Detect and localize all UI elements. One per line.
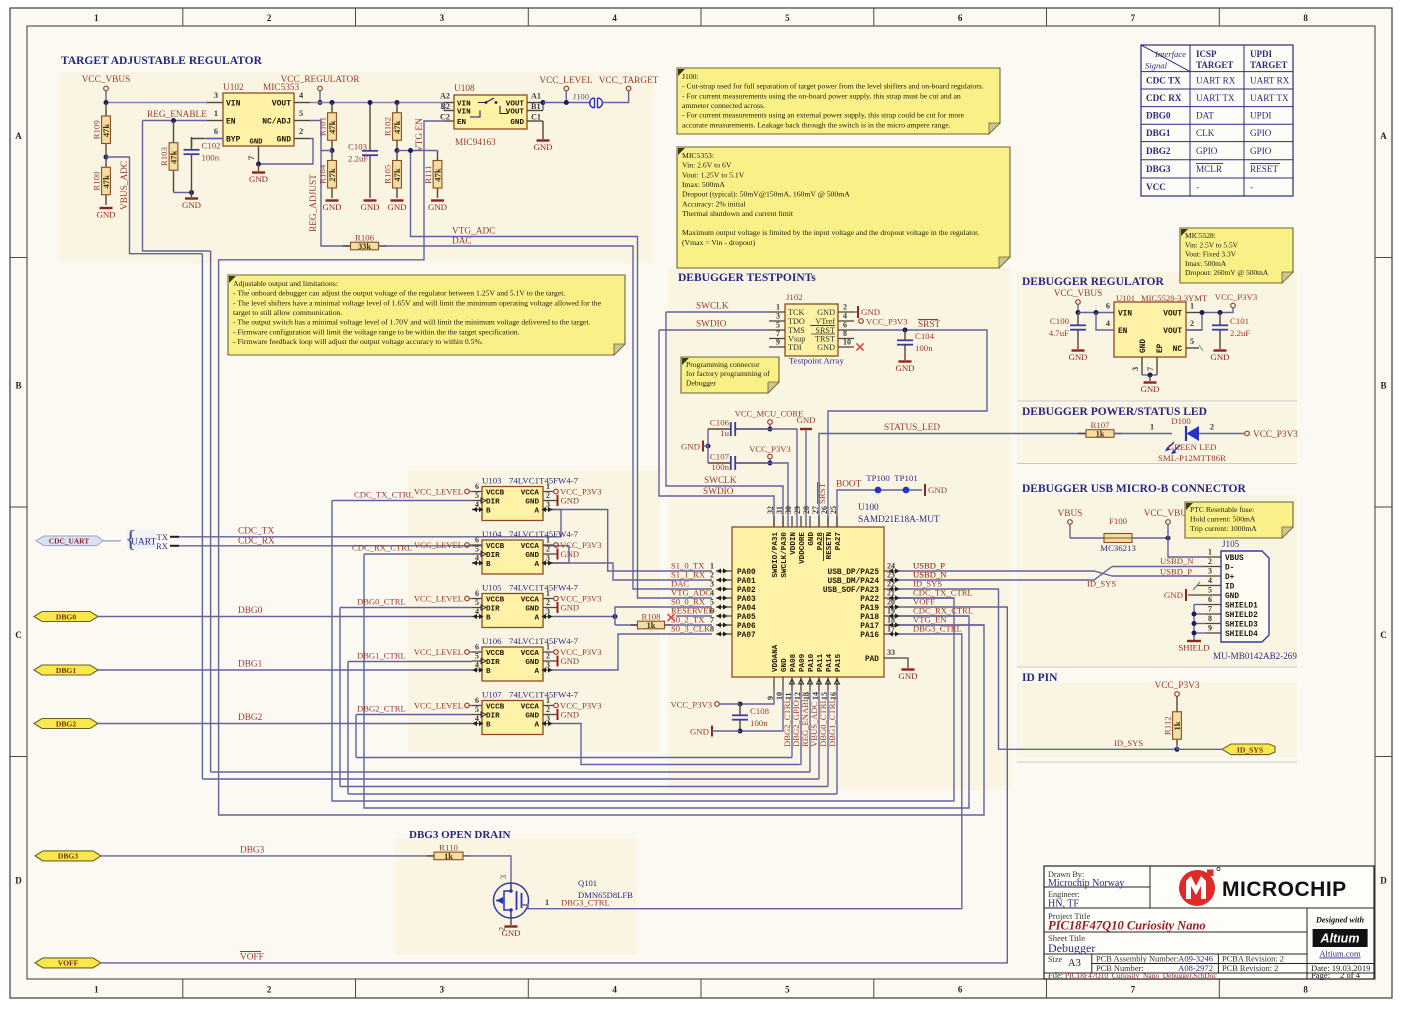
svg-text:SAMD21E18A-MUT: SAMD21E18A-MUT xyxy=(858,515,940,525)
level shifter U103 74LVC1T45 xyxy=(482,487,543,521)
svg-text:1k: 1k xyxy=(1096,429,1105,438)
svg-text:1: 1 xyxy=(776,303,780,312)
svg-text:VCC_LEVEL: VCC_LEVEL xyxy=(414,540,463,550)
component U101 MIC5528-3.3YMT xyxy=(1114,302,1186,357)
svg-text:UART: UART xyxy=(131,538,156,548)
panel debugger testpoints and mcu xyxy=(668,268,1011,790)
svg-text:S0_3_CLK: S0_3_CLK xyxy=(671,624,711,634)
svg-text:GND: GND xyxy=(781,658,789,672)
note PTC resettable fuse xyxy=(1185,502,1293,538)
svg-text:2: 2 xyxy=(546,545,550,554)
svg-text:B: B xyxy=(486,668,491,676)
svg-text:A: A xyxy=(1380,131,1387,141)
wire Q101 gate to DBG3_CTRL xyxy=(522,905,542,909)
svg-text:Signal: Signal xyxy=(1145,61,1168,71)
svg-text:Page:: Page: xyxy=(1311,970,1330,980)
svg-text:2: 2 xyxy=(710,571,714,580)
svg-text:C106: C106 xyxy=(710,418,730,428)
svg-text:BYP: BYP xyxy=(226,136,241,145)
svg-text:6: 6 xyxy=(958,13,963,23)
no-connect x J102 pin10 xyxy=(856,343,863,350)
svg-text:UART RX: UART RX xyxy=(1250,76,1290,86)
svg-text:9: 9 xyxy=(776,338,780,347)
svg-text:PAD: PAD xyxy=(865,656,879,664)
ground below R105 xyxy=(391,199,404,201)
svg-text:PA27: PA27 xyxy=(835,532,843,551)
svg-text:B: B xyxy=(486,614,491,622)
component U108 MIC94163 load switch xyxy=(454,95,527,129)
svg-text:5: 5 xyxy=(475,705,479,714)
svg-text:J102: J102 xyxy=(786,292,803,302)
svg-text:D-: D- xyxy=(1225,565,1234,573)
wire pin13 drop xyxy=(809,690,811,772)
svg-text:1: 1 xyxy=(1190,302,1194,311)
svg-text:PA04: PA04 xyxy=(737,605,756,613)
level shifter U105 74LVC1T45 xyxy=(482,594,543,628)
svg-text:CDC RX: CDC RX xyxy=(1146,93,1182,103)
svg-text:SML-P12MTT86R: SML-P12MTT86R xyxy=(1158,453,1226,463)
note MIC5353 specs xyxy=(677,147,1010,268)
svg-text:1u: 1u xyxy=(720,428,729,438)
svg-text:6: 6 xyxy=(475,589,479,598)
svg-text:VCC_TARGET: VCC_TARGET xyxy=(599,76,659,86)
svg-text:DBG0: DBG0 xyxy=(1146,111,1171,121)
svg-text:2 of 4: 2 of 4 xyxy=(1340,970,1361,980)
svg-text:26: 26 xyxy=(820,506,829,514)
svg-text:NC: NC xyxy=(1173,346,1183,354)
svg-text:PIC18F47Q10 Curiosity Nano: PIC18F47Q10 Curiosity Nano xyxy=(1048,919,1206,933)
wire LED to VCC_P3V3 xyxy=(1199,433,1244,435)
svg-text:8: 8 xyxy=(1303,13,1308,23)
svg-text:ID_SYS: ID_SYS xyxy=(1087,579,1116,589)
svg-text:D: D xyxy=(1380,875,1387,885)
svg-text:BOOT: BOOT xyxy=(836,480,862,490)
node junction R102 rail xyxy=(395,100,400,105)
svg-text:R103: R103 xyxy=(159,146,169,166)
wire U101 VOUT join to VCC_P3V3 xyxy=(1186,313,1202,331)
svg-text:DEBUGGER TESTPOINTs: DEBUGGER TESTPOINTs xyxy=(678,272,816,284)
svg-text:D100: D100 xyxy=(1171,416,1191,426)
svg-text:VOUT: VOUT xyxy=(1163,328,1182,336)
svg-text:PA06: PA06 xyxy=(737,623,756,631)
svg-text:J100: J100 xyxy=(573,92,589,102)
svg-text:1k: 1k xyxy=(1172,721,1182,730)
svg-text:GND: GND xyxy=(96,210,115,220)
wire bundle DBG0_CTRL xyxy=(339,608,341,787)
wire U105 A to junction xyxy=(553,616,615,618)
wire NC/ADJ to R101/R104 junction and REG_ADJUST vertical xyxy=(310,121,332,151)
svg-text:PA03: PA03 xyxy=(737,596,756,604)
resistor R103 xyxy=(173,121,175,193)
capacitor C101 xyxy=(1219,313,1221,326)
svg-text:47k: 47k xyxy=(392,168,402,182)
svg-text:DBG2: DBG2 xyxy=(1146,146,1171,156)
wire R103 bottom to gnd join xyxy=(174,192,192,194)
wire VOUT rail to U108 xyxy=(310,102,444,104)
ground U102 pin7 xyxy=(258,164,260,171)
wire switch output rail xyxy=(543,102,591,104)
svg-text:VCCA: VCCA xyxy=(521,703,540,711)
wire J100 to VCC_TARGET xyxy=(603,91,629,103)
wire pin9 VDDANA to VCC_P3V3 xyxy=(740,690,774,704)
wire VBUS to J105 pin1 xyxy=(1168,538,1205,557)
svg-text:ICSP: ICSP xyxy=(1196,49,1217,59)
svg-text:100n: 100n xyxy=(202,153,220,163)
svg-text:TARGET: TARGET xyxy=(1250,60,1287,70)
svg-text:B: B xyxy=(15,380,21,390)
svg-text:D: D xyxy=(15,875,22,885)
wire DBG1 to U106 B xyxy=(98,669,472,671)
wire VCC_P3V3 to VDDIN xyxy=(737,463,788,527)
svg-text:27: 27 xyxy=(811,506,820,514)
wire USBD_N from PA24 with crossover xyxy=(900,567,1112,581)
svg-text:GND: GND xyxy=(817,343,835,352)
svg-text:VCC_P3V3: VCC_P3V3 xyxy=(866,317,908,327)
svg-text:1: 1 xyxy=(1208,548,1212,557)
svg-text:B: B xyxy=(486,507,491,515)
svg-text:PA08: PA08 xyxy=(790,653,798,672)
svg-text:VCC_P3V3: VCC_P3V3 xyxy=(670,700,712,710)
svg-text:Designed with: Designed with xyxy=(1315,916,1364,925)
panel dbg3 open drain xyxy=(395,838,637,955)
svg-text:U102: U102 xyxy=(223,83,244,93)
level shifter U104 74LVC1T45 xyxy=(482,540,543,574)
wire VCC_VBUS to U101 VIN xyxy=(1078,312,1114,314)
svg-text:8: 8 xyxy=(1303,985,1308,995)
svg-text:VDDIN: VDDIN xyxy=(790,532,798,555)
svg-text:DAC: DAC xyxy=(452,237,472,247)
svg-text:5: 5 xyxy=(475,491,479,500)
wire DAC from R106 xyxy=(379,246,713,589)
svg-text:GND: GND xyxy=(1225,593,1239,601)
panel debugger usb connector xyxy=(1017,495,1297,667)
port tag DBG0 xyxy=(34,612,98,622)
resistor R111 xyxy=(437,151,439,199)
svg-text:UPDI: UPDI xyxy=(1250,111,1271,121)
svg-text:VCC_LEVEL: VCC_LEVEL xyxy=(539,76,593,86)
svg-text:SWCLK: SWCLK xyxy=(696,302,729,312)
node junction R109 top xyxy=(104,155,109,160)
svg-text:74LVC1T45FW4-7: 74LVC1T45FW4-7 xyxy=(509,529,579,539)
ground bar at J105 GND xyxy=(1188,594,1205,596)
capacitor C104 xyxy=(904,330,906,340)
svg-text:DBG3 OPEN DRAIN: DBG3 OPEN DRAIN xyxy=(409,829,511,841)
wire bundle line6 xyxy=(348,793,837,795)
svg-text:MIC5528-3.3YMT: MIC5528-3.3YMT xyxy=(1141,293,1208,303)
svg-text:30: 30 xyxy=(784,506,793,514)
svg-text:PA19: PA19 xyxy=(860,605,879,613)
svg-text:1: 1 xyxy=(1150,423,1154,432)
ground below C103 xyxy=(364,199,377,201)
panel debugger power status led xyxy=(1017,403,1297,463)
svg-text:5: 5 xyxy=(475,598,479,607)
svg-text:VOUT: VOUT xyxy=(506,109,525,117)
capacitor C108 xyxy=(739,704,741,715)
panel level shifters xyxy=(408,470,660,752)
svg-text:RESETN: RESETN xyxy=(826,532,834,560)
svg-text:8: 8 xyxy=(710,625,714,634)
port tag DBG2 xyxy=(34,719,98,729)
svg-text:REG_ENABLE: REG_ENABLE xyxy=(147,110,207,120)
svg-text:DIR: DIR xyxy=(486,659,500,667)
svg-text:C: C xyxy=(1380,630,1387,640)
ground below R100 xyxy=(100,207,113,209)
svg-text:100n: 100n xyxy=(750,718,768,728)
wire VOFF from PA19 xyxy=(101,607,1007,963)
svg-text:SHIELD3: SHIELD3 xyxy=(1225,622,1258,630)
table interface signal xyxy=(1141,45,1293,196)
svg-text:GND: GND xyxy=(561,710,580,720)
svg-text:VCC_REGULATOR: VCC_REGULATOR xyxy=(281,75,361,85)
svg-text:7: 7 xyxy=(247,156,256,160)
svg-text:1k: 1k xyxy=(647,621,656,630)
svg-text:D+: D+ xyxy=(1225,574,1235,582)
wire CDC_RX_CTRL horiz xyxy=(900,615,969,617)
port tag DBG3 xyxy=(35,851,101,861)
svg-text:GND: GND xyxy=(796,415,815,425)
wire STATUS_LED from PA28 xyxy=(819,434,1086,528)
svg-text:Size: Size xyxy=(1048,955,1062,964)
svg-text:DEBUGGER REGULATOR: DEBUGGER REGULATOR xyxy=(1022,276,1164,288)
svg-text:U106: U106 xyxy=(482,636,502,646)
svg-text:6: 6 xyxy=(214,127,218,136)
svg-text:TARGET ADJUSTABLE REGULATOR: TARGET ADJUSTABLE REGULATOR xyxy=(61,55,263,67)
svg-text:GND: GND xyxy=(249,174,268,184)
power VCC_P3V3 at J102 pin4 xyxy=(859,319,864,324)
svg-text:1: 1 xyxy=(546,589,550,598)
svg-text:32: 32 xyxy=(766,506,775,514)
component J105 usb connector MU-MB0142AB2-269 xyxy=(1221,551,1269,642)
svg-text:STATUS_LED: STATUS_LED xyxy=(884,423,940,433)
svg-text:GND: GND xyxy=(561,603,580,613)
ground below C104 xyxy=(899,360,912,362)
svg-text:R112: R112 xyxy=(1163,716,1173,735)
svg-text:GND: GND xyxy=(525,605,539,613)
svg-text:SWDIO: SWDIO xyxy=(696,320,727,330)
svg-text:Altıum: Altıum xyxy=(1320,932,1360,946)
svg-text:GND: GND xyxy=(387,202,406,212)
svg-text:47k: 47k xyxy=(433,168,443,182)
svg-text:C108: C108 xyxy=(750,706,770,716)
ground below C100 xyxy=(1072,349,1085,351)
svg-text:SHIELD4: SHIELD4 xyxy=(1225,631,1258,639)
svg-text:TDI: TDI xyxy=(788,343,802,352)
svg-text:DBG0: DBG0 xyxy=(238,606,263,616)
svg-text:TDO: TDO xyxy=(788,317,805,326)
wire CDC_RX_CTRL to U104 DIR xyxy=(364,553,472,555)
svg-text:22: 22 xyxy=(887,580,895,589)
node junction R112 bottom xyxy=(1175,747,1180,752)
svg-text:A2: A2 xyxy=(440,92,450,101)
svg-text:GND: GND xyxy=(525,552,539,560)
svg-text:RESET: RESET xyxy=(1250,164,1278,174)
svg-text:28: 28 xyxy=(802,506,811,514)
svg-text:47k: 47k xyxy=(169,150,179,164)
svg-text:5: 5 xyxy=(299,109,303,118)
svg-text:2: 2 xyxy=(299,127,303,136)
svg-text:PA22: PA22 xyxy=(860,596,879,604)
svg-text:GND: GND xyxy=(533,142,552,152)
resistor R112 xyxy=(1176,706,1178,745)
resistor R109 xyxy=(105,103,107,158)
svg-text:DIR: DIR xyxy=(486,605,500,613)
wire bundle line2 xyxy=(798,764,801,766)
svg-text:7: 7 xyxy=(1146,367,1155,371)
svg-text:C2: C2 xyxy=(440,113,450,122)
svg-text:GND: GND xyxy=(561,656,580,666)
svg-text:7: 7 xyxy=(710,616,714,625)
svg-text:74LVC1T45FW4-7: 74LVC1T45FW4-7 xyxy=(509,690,579,700)
svg-text:USBD_N: USBD_N xyxy=(1160,556,1194,566)
svg-text:Q101: Q101 xyxy=(578,878,597,888)
svg-text:C100: C100 xyxy=(1050,316,1070,326)
svg-text:25: 25 xyxy=(829,506,838,514)
svg-text:VCC_VBUS: VCC_VBUS xyxy=(82,75,131,85)
wire PAD to ground xyxy=(900,658,908,668)
svg-text:GND: GND xyxy=(898,671,917,681)
svg-text:CDC_RX_CTRL: CDC_RX_CTRL xyxy=(352,543,412,553)
svg-text:B: B xyxy=(486,561,491,569)
svg-text:C101: C101 xyxy=(1230,316,1249,326)
svg-text:DBG3: DBG3 xyxy=(240,846,265,856)
resistor R100 xyxy=(105,157,107,205)
svg-text:J105: J105 xyxy=(1222,539,1240,549)
svg-text:3: 3 xyxy=(440,13,445,23)
svg-text:9: 9 xyxy=(1208,624,1212,633)
ground below R111 xyxy=(431,199,444,201)
svg-text:GREEN LED: GREEN LED xyxy=(1168,442,1217,452)
wire bundle line4 xyxy=(202,778,819,780)
svg-text:1: 1 xyxy=(94,985,99,995)
svg-text:33k: 33k xyxy=(358,242,371,251)
wire bundle line5 xyxy=(340,786,828,788)
svg-text:5: 5 xyxy=(1190,337,1194,346)
ground U108 C1 xyxy=(542,121,544,139)
note MIC5528 specs xyxy=(1180,228,1293,283)
svg-text:2: 2 xyxy=(1210,423,1214,432)
svg-text:18: 18 xyxy=(887,616,895,625)
svg-text:RX: RX xyxy=(156,541,169,551)
wire R108 to PA06 xyxy=(665,624,712,626)
resistor R102 xyxy=(396,103,398,151)
svg-text:U104: U104 xyxy=(482,529,502,539)
svg-text:VCC_P3V3: VCC_P3V3 xyxy=(1155,681,1200,691)
wire VTG_ADC tap xyxy=(397,150,411,152)
svg-text:SWDIO/PA31: SWDIO/PA31 xyxy=(772,532,780,578)
svg-text:SRST: SRST xyxy=(918,320,941,330)
port tag ID_SYS xyxy=(1222,744,1275,755)
wire ID_SYS to port xyxy=(1177,748,1222,750)
wire DBG2 to U107 B xyxy=(98,723,472,725)
svg-text:USB_DP/PA25: USB_DP/PA25 xyxy=(828,569,880,577)
svg-text:VCCB: VCCB xyxy=(486,650,505,658)
svg-text:DBG3: DBG3 xyxy=(1146,164,1171,174)
wire R110 to Q101 drain xyxy=(463,856,511,883)
svg-text:DBG1: DBG1 xyxy=(238,660,263,670)
svg-text:5: 5 xyxy=(785,985,790,995)
svg-text:TP101: TP101 xyxy=(894,473,917,483)
wire U108 outputs join xyxy=(542,103,544,111)
wire DBG3_CTRL from PA16 to Q101 xyxy=(541,634,962,909)
wire shield pins join xyxy=(1194,604,1205,606)
wire CDC_TX_CTRL to U103 DIR xyxy=(332,500,472,502)
svg-text:DBG2_CTRL: DBG2_CTRL xyxy=(357,704,406,714)
svg-text:TCK: TCK xyxy=(788,308,804,317)
svg-text:GND: GND xyxy=(561,496,580,506)
svg-text:GND: GND xyxy=(525,712,539,720)
svg-text:GND: GND xyxy=(525,659,539,667)
svg-text:47k: 47k xyxy=(392,120,402,134)
svg-text:DBG3: DBG3 xyxy=(58,852,78,861)
svg-text:NC/ADJ: NC/ADJ xyxy=(262,118,291,127)
wire CDC_RX from harness xyxy=(179,546,569,563)
wire bundle line3 xyxy=(211,771,810,773)
svg-text:VCC_LEVEL: VCC_LEVEL xyxy=(414,647,463,657)
svg-text:CLK: CLK xyxy=(1196,128,1215,138)
svg-text:Microchip Norway: Microchip Norway xyxy=(1048,878,1124,889)
wire bundle DBG1_CTRL xyxy=(347,662,349,795)
svg-text:USBD_P: USBD_P xyxy=(1160,567,1192,577)
svg-text:A: A xyxy=(534,668,539,676)
svg-text:VCC_LEVEL: VCC_LEVEL xyxy=(414,700,463,710)
svg-text:C104: C104 xyxy=(915,331,935,341)
svg-text:2.2uF: 2.2uF xyxy=(1230,328,1250,338)
svg-text:VOUT: VOUT xyxy=(272,100,291,109)
wire pin11 drop xyxy=(791,690,793,758)
svg-text:C1: C1 xyxy=(531,113,541,122)
resistor R104 xyxy=(331,151,333,199)
svg-text:PA14: PA14 xyxy=(826,653,834,672)
svg-text:A1: A1 xyxy=(531,92,541,101)
svg-text:VBUS_ADC: VBUS_ADC xyxy=(120,161,130,210)
node junction R103 top xyxy=(171,118,176,123)
svg-text:SWCLK/PA30: SWCLK/PA30 xyxy=(781,532,789,578)
svg-text:3: 3 xyxy=(776,312,780,321)
svg-text:HN, TF: HN, TF xyxy=(1048,899,1079,910)
svg-text:-: - xyxy=(1196,182,1199,192)
wire gnd join C106 C107 xyxy=(703,445,708,447)
svg-text:3: 3 xyxy=(440,985,445,995)
svg-text:U107: U107 xyxy=(482,690,502,700)
svg-text:USB_SOF/PA23: USB_SOF/PA23 xyxy=(823,587,879,595)
svg-text:PCB Assembly Number:: PCB Assembly Number: xyxy=(1096,955,1179,964)
svg-text:USBD_N: USBD_N xyxy=(913,570,947,580)
node junction R101 rail xyxy=(330,100,335,105)
svg-text:6: 6 xyxy=(475,482,479,491)
wire VBUS_ADC from divider xyxy=(106,157,202,254)
wire CDC_TX_CTRL horiz xyxy=(900,597,954,599)
svg-text:1: 1 xyxy=(546,536,550,545)
no connect stub U101 NC xyxy=(1199,345,1203,351)
svg-text:GND: GND xyxy=(817,308,835,317)
wire DBG2_CTRL to U107 DIR xyxy=(356,714,472,716)
svg-text:Debugger: Debugger xyxy=(1048,941,1095,955)
resistor R106 xyxy=(343,245,387,247)
svg-text:17: 17 xyxy=(887,625,895,634)
svg-text:7: 7 xyxy=(1131,13,1136,23)
svg-text:SWCLK: SWCLK xyxy=(704,476,737,486)
svg-text:VOUT: VOUT xyxy=(506,101,525,109)
wire REG_ENABLE vertical to bus xyxy=(143,121,211,252)
wire bundle U107 A to bus xyxy=(553,724,798,765)
wire bundle CDC_TX_CTRL xyxy=(332,501,954,802)
svg-text:PA18: PA18 xyxy=(860,614,879,622)
svg-text:A: A xyxy=(534,507,539,515)
wire bus vertical VBUS_ADC xyxy=(201,254,203,779)
svg-text:10: 10 xyxy=(843,338,851,347)
svg-text:2: 2 xyxy=(546,705,550,714)
svg-text:7: 7 xyxy=(1208,605,1212,614)
